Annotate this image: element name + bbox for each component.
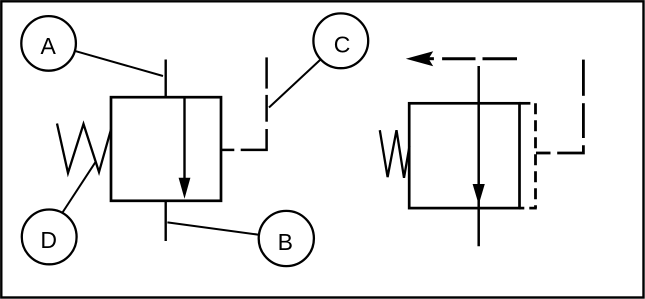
bottom corner dash	[529, 207, 537, 210]
pilot line dash (horizontal from valve to riser)	[221, 149, 234, 152]
leader line C	[269, 59, 321, 107]
port B stub (bottom outlet line)	[164, 201, 166, 242]
step pilot dash (horizontal from drain line)	[536, 152, 551, 155]
step pilot corner dash	[557, 145, 583, 153]
svg-text:A: A	[41, 33, 57, 59]
callout circle B	[259, 211, 314, 266]
internal flow arrow (left valve)	[179, 97, 191, 199]
top dashed line dash 2	[483, 57, 518, 60]
callout circle D	[22, 210, 77, 265]
bottom edge extension	[519, 207, 524, 210]
drain pilot line (fine dashed vertical)	[534, 103, 537, 208]
flow direction arrowhead (top dashed line)	[406, 51, 433, 66]
top dashed line dash 1	[442, 57, 475, 60]
spring (left valve)	[57, 124, 111, 174]
svg-text:D: D	[40, 227, 57, 253]
valve body (right valve envelope)	[409, 103, 519, 208]
pilot line riser dash top	[265, 57, 268, 88]
step pilot riser dash top	[582, 60, 585, 96]
valve body (left valve envelope)	[111, 97, 221, 201]
step pilot riser dash	[582, 103, 585, 138]
leader line A	[75, 51, 163, 76]
through line (right valve)	[477, 66, 480, 246]
port A stub (top inlet line)	[164, 60, 166, 98]
svg-text:C: C	[334, 32, 351, 58]
top edge extension	[519, 102, 530, 105]
leader line B	[167, 222, 258, 234]
callout circle A	[21, 16, 76, 71]
svg-text:B: B	[278, 229, 293, 255]
callout circle C	[313, 13, 368, 68]
pilot line corner dash	[241, 129, 267, 150]
spring (right valve)	[380, 130, 410, 178]
pilot line riser dash	[265, 95, 268, 122]
internal flow arrow (right valve)	[473, 184, 485, 205]
leader line D	[63, 162, 96, 212]
